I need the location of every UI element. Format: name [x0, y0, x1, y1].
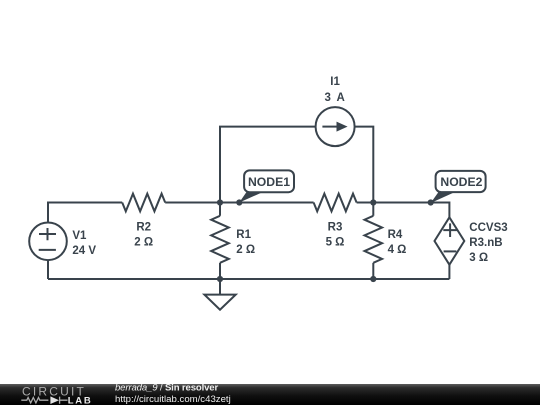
junction at R1 top [217, 199, 223, 205]
wire I1 loop right [355, 127, 374, 203]
wire bottom rail [48, 278, 449, 280]
node NODE2 [431, 171, 486, 203]
R3 value label [326, 221, 345, 248]
svg-text:I1: I1 [330, 76, 340, 88]
svg-text:R3: R3 [328, 221, 343, 233]
wire ground stem [219, 279, 221, 295]
junction NODE2 pointer [428, 199, 434, 205]
node NODE1 [239, 170, 294, 202]
R1 value label [236, 229, 255, 256]
R4 value label [388, 229, 407, 256]
svg-text:5 Ω: 5 Ω [326, 237, 345, 249]
svg-text:4 Ω: 4 Ω [388, 244, 407, 256]
svg-text:R2: R2 [136, 221, 151, 233]
wire R1 bottom stem [219, 263, 221, 279]
wire R4 bottom stem [372, 263, 374, 279]
resistor R4 [365, 216, 383, 263]
wire R1 top stem [219, 203, 221, 216]
current source I1 [316, 107, 355, 146]
svg-text:NODE1: NODE1 [248, 175, 290, 189]
svg-text:24 V: 24 V [72, 245, 96, 257]
footer bar [0, 384, 540, 405]
svg-text:LAB: LAB [68, 395, 93, 405]
resistor R3 [314, 194, 357, 212]
resistor R1 [211, 216, 229, 263]
wire top rail V1 to R2 [48, 203, 122, 224]
junction at R4 bottom [370, 276, 376, 282]
wire R3 to CCVS3 top [357, 203, 450, 218]
resistor R2 [122, 194, 165, 212]
footer logo resistor-diode [21, 396, 67, 404]
CCVS3 value label [469, 222, 507, 264]
junction at ground [217, 276, 223, 282]
svg-text:2 Ω: 2 Ω [236, 244, 255, 256]
svg-text:CCVS3: CCVS3 [469, 222, 507, 234]
svg-text:berrada_9 / Sin resolver: berrada_9 / Sin resolver [115, 383, 218, 394]
svg-text:R4: R4 [388, 229, 403, 241]
svg-text:NODE2: NODE2 [440, 175, 482, 189]
svg-text:http://circuitlab.com/c43zetj: http://circuitlab.com/c43zetj [115, 394, 231, 405]
I1 value label [324, 76, 344, 104]
svg-text:R3.nB: R3.nB [469, 237, 502, 249]
svg-text:3 Ω: 3 Ω [469, 252, 488, 264]
R2 value label [134, 221, 153, 248]
dependent source CCVS3 [435, 217, 465, 264]
ground [204, 295, 235, 310]
svg-text:R1: R1 [236, 229, 251, 241]
junction at R4 top [370, 199, 376, 205]
wire CCVS3 bottom stem [448, 265, 450, 279]
junction NODE1 pointer [236, 199, 242, 205]
wire V1 bottom stem [47, 260, 49, 279]
svg-text:2 Ω: 2 Ω [134, 237, 153, 249]
wire I1 loop left [220, 127, 316, 203]
svg-text:A: A [336, 92, 344, 104]
V1 value label [72, 230, 96, 257]
svg-text:3: 3 [324, 92, 330, 104]
wire R2 to node A rail [165, 202, 313, 204]
svg-text:V1: V1 [72, 230, 87, 242]
wire R4 top stem [372, 203, 374, 216]
voltage source V1 [29, 223, 67, 261]
